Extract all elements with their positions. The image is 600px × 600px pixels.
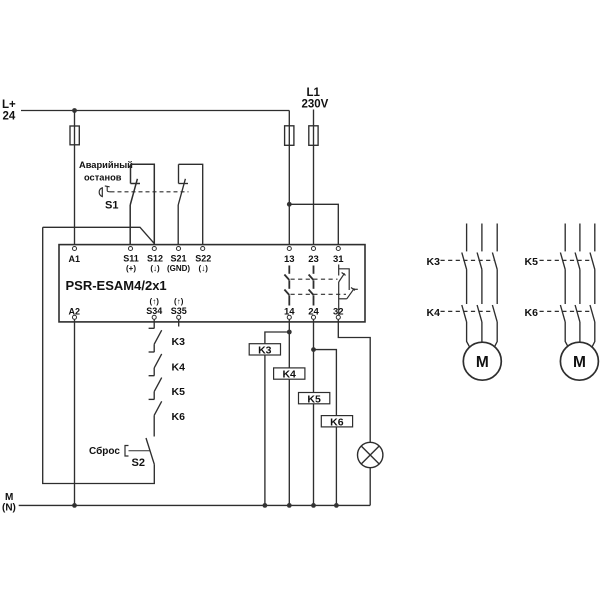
svg-text:L1: L1	[307, 87, 321, 99]
relay contact 23-24 (two NO contacts in series)	[309, 266, 314, 306]
wire L+ rail down to A1	[74, 111, 76, 247]
switch S2 contact blade	[146, 438, 154, 464]
svg-text:(↑): (↑)	[174, 297, 184, 306]
wire K4 coil to bus	[288, 379, 290, 505]
svg-text:K5: K5	[172, 386, 186, 398]
net L1 230V label	[302, 87, 329, 111]
svg-text:S34: S34	[146, 306, 162, 316]
wire L+ supply rail	[21, 110, 289, 112]
svg-text:K4: K4	[427, 307, 441, 319]
wire rail corner down to terminal 13	[288, 111, 290, 247]
contactor coil K3	[249, 344, 280, 355]
relay contact 13-14 (two NO contacts in series)	[284, 266, 289, 306]
node junction feeding contact 31	[287, 202, 292, 207]
svg-text:PSR-ESAM4/2x1: PSR-ESAM4/2x1	[66, 278, 167, 293]
svg-text:K4: K4	[282, 369, 296, 381]
safety relay U1 PSR-ESAM4/2x1 body	[59, 245, 365, 322]
wire S34 down to feedback chain	[153, 320, 155, 329]
motor branch 1 phase wires	[467, 224, 498, 252]
wire K3 coil to bus	[264, 355, 266, 505]
wire K6 to S2	[153, 415, 155, 436]
wire	[153, 368, 155, 376]
terminal S12 (down arrow)	[152, 246, 156, 250]
svg-text:Аварийный: Аварийный	[79, 160, 133, 170]
lamp H1 signal indicator	[358, 442, 383, 467]
svg-text:31: 31	[333, 254, 344, 265]
svg-text:S1: S1	[105, 200, 118, 212]
wire K4 mechanical link (dashed)	[441, 310, 495, 312]
svg-text:M: M	[476, 354, 489, 371]
svg-text:S12: S12	[147, 254, 163, 264]
contactor coil K5	[299, 393, 330, 404]
node junction 14 branch	[287, 330, 292, 335]
wire	[153, 344, 155, 352]
motor branch 2 phase wires	[565, 224, 595, 252]
contact K4 feedback NC	[149, 351, 155, 353]
svg-text:K3: K3	[427, 256, 441, 268]
wire phase leads into motor 2	[565, 322, 595, 351]
fuse F3 on 23 supply	[309, 126, 318, 146]
wire S2 actuator link	[129, 450, 150, 452]
svg-text:K5: K5	[525, 256, 539, 268]
svg-text:(+): (+)	[126, 264, 136, 273]
svg-text:K5: K5	[307, 393, 321, 405]
wire branch to K3 coil	[265, 332, 289, 344]
wire K5 mechanical link (dashed)	[540, 259, 593, 261]
wire L1 down to terminal 23	[313, 110, 315, 247]
net M(N) label	[2, 492, 16, 514]
fuse F1 on A1 supply	[70, 126, 79, 145]
svg-text:13: 13	[284, 254, 295, 265]
terminal S11 (+)	[128, 246, 132, 250]
wire M(N) bus	[19, 504, 371, 506]
svg-text:(↓): (↓)	[199, 264, 209, 273]
terminal S35 (up arrow)	[177, 315, 181, 319]
svg-text:23: 23	[308, 254, 319, 265]
wire mechanical link row 1 (dashed)	[291, 278, 338, 280]
svg-text:S22: S22	[195, 254, 211, 264]
switch S1 contact 2 (channel 2, S21-S22, NC)	[178, 164, 188, 246]
svg-text:(N): (N)	[2, 503, 16, 514]
net L+ 24V label	[2, 99, 16, 123]
node junction K3 on bus	[263, 503, 268, 508]
svg-text:(↓): (↓)	[150, 264, 160, 273]
svg-text:K4: K4	[172, 362, 186, 374]
wire mid phase segments motor 2	[565, 269, 595, 304]
svg-text:A2: A2	[69, 307, 81, 317]
wire terminal 14 down	[288, 320, 290, 368]
motor M2	[560, 342, 598, 380]
terminal S22 (down arrow)	[201, 246, 205, 250]
svg-text:Сброс: Сброс	[89, 445, 120, 457]
wire S1 contact 1 bridge to S12	[131, 164, 155, 246]
svg-text:S11: S11	[123, 254, 139, 264]
switch S2 manual actuator bracket	[125, 446, 129, 457]
terminal A2	[72, 315, 76, 319]
wire K6 coil to bus	[335, 427, 337, 506]
svg-text:останов: останов	[84, 173, 122, 183]
terminal 14	[287, 315, 291, 319]
wire S1 contact 2 bridge to S22	[179, 164, 203, 246]
node junction A2 on bus	[72, 503, 77, 508]
terminal S34 (up arrow)	[152, 315, 156, 319]
terminal 32	[336, 315, 340, 319]
svg-text:A1: A1	[69, 254, 81, 264]
wire terminal 24 down	[313, 320, 315, 393]
terminal 31	[336, 246, 340, 250]
wire S35 stub	[178, 320, 180, 327]
node junction K4 on bus	[287, 503, 292, 508]
svg-text:24: 24	[308, 307, 319, 318]
svg-text:S2: S2	[132, 457, 145, 469]
contactor contacts K4 (3-pole NO)	[462, 305, 497, 322]
node junction A1 tap on L+ rail	[72, 108, 77, 113]
wire lamp to bus	[369, 468, 371, 506]
relay auxiliary NC contact 31-32 (positively driven)	[339, 265, 358, 316]
wire branch from 13 line to terminal 31	[289, 204, 338, 246]
contact K6 feedback NC	[149, 398, 155, 400]
svg-text:M: M	[573, 354, 586, 371]
contactor contacts K3 (3-pole NO)	[462, 253, 497, 270]
fuse F2 on 13 supply	[285, 126, 294, 146]
wire K5 coil to bus	[313, 404, 315, 506]
svg-text:K6: K6	[525, 307, 539, 319]
contactor contacts K5 (3-pole NO)	[560, 253, 594, 270]
terminal S21 (GND)	[176, 246, 180, 250]
svg-text:(GND): (GND)	[167, 264, 190, 273]
wire mid phase segments motor 1	[467, 269, 498, 304]
svg-text:M: M	[5, 492, 13, 503]
wire S1 mechanical link (dashed)	[111, 191, 189, 193]
switch S1 mushroom actuator	[99, 188, 102, 197]
svg-text:24: 24	[3, 111, 16, 123]
motor M1	[463, 342, 501, 380]
svg-text:(↑): (↑)	[150, 297, 160, 306]
wire A2 down to M(N) bus	[74, 320, 76, 506]
wire mechanical link row 2 (dashed)	[291, 293, 347, 295]
node junction K6 on bus	[334, 503, 339, 508]
contactor coil K6	[321, 416, 352, 427]
switch S1 contact 1 (channel 1, S11-S12, NC)	[130, 164, 140, 246]
terminal 13	[287, 246, 291, 250]
terminal 23	[311, 246, 315, 250]
svg-text:S21: S21	[170, 254, 186, 264]
svg-text:K3: K3	[172, 336, 186, 348]
svg-text:K6: K6	[330, 416, 344, 428]
node junction K5 on bus	[311, 503, 316, 508]
reset button S2 label	[89, 445, 145, 469]
wire phase leads into motor 1	[467, 322, 498, 351]
emergency stop S1 label	[79, 160, 133, 212]
wire S2 to left return loop	[43, 227, 155, 483]
svg-text:K6: K6	[172, 411, 186, 423]
terminal A1	[72, 246, 76, 250]
contactor contacts K6 (3-pole NO)	[560, 305, 594, 322]
wire terminal 32 to lamp	[338, 320, 370, 443]
wire K3 mechanical link (dashed)	[441, 259, 495, 261]
contactor coil K4	[274, 368, 305, 379]
wire reset feedback feed into S12	[43, 227, 155, 243]
wire	[153, 392, 155, 400]
svg-text:14: 14	[284, 307, 295, 318]
svg-text:230V: 230V	[302, 99, 329, 111]
wire K6 mechanical link (dashed)	[540, 310, 593, 312]
wire branch to K6 coil	[314, 350, 337, 416]
svg-text:L+: L+	[2, 99, 16, 111]
svg-text:S35: S35	[171, 306, 187, 316]
contact K3 feedback NC	[149, 327, 155, 329]
terminal 24	[311, 315, 315, 319]
node junction 24 branch	[311, 347, 316, 352]
contact K5 feedback NC	[149, 375, 155, 377]
svg-text:K3: K3	[258, 345, 272, 357]
